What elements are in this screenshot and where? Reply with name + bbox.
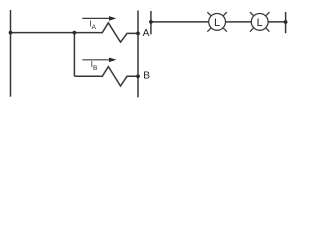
wire lamp-circuit right rail [285, 12, 287, 33]
wire lamp feed [151, 21, 209, 23]
node branch junction [73, 31, 77, 35]
svg-text:L: L [214, 17, 220, 29]
current arrow IA [82, 16, 116, 21]
wire branch B with contact element [74, 67, 138, 86]
wire right rail [137, 11, 139, 98]
wire left rail [10, 10, 12, 97]
node right end junction [284, 20, 288, 24]
svg-text:A: A [143, 28, 150, 39]
svg-text:L: L [257, 17, 263, 29]
node B [136, 74, 140, 78]
node lamp rail junction [149, 20, 153, 24]
wire main horizontal [11, 32, 75, 34]
wire branch B vertical drop [73, 33, 75, 77]
lamp L2 [250, 12, 270, 32]
wire branch A with contact element [74, 23, 138, 42]
node A [136, 32, 140, 36]
wire lamp-circuit left rail [150, 11, 152, 34]
lamp L1 [207, 12, 227, 32]
current arrow IB [82, 58, 116, 63]
svg-text:B: B [143, 70, 150, 81]
wire lamp to right rail [268, 21, 286, 23]
wire between lamps [226, 21, 252, 23]
node junction on left rail [9, 31, 13, 35]
